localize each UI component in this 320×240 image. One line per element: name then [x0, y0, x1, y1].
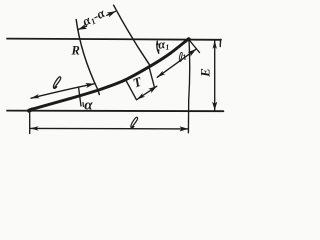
- bent bar (workpiece): [30, 39, 189, 110]
- tiny stroke before alpha: [82, 103, 84, 107]
- label E: [197, 68, 212, 78]
- svg-text:α: α: [84, 97, 93, 113]
- T dimension left tick: [126, 80, 137, 100]
- bottom reference line: [7, 110, 223, 113]
- top line end tick: [219, 39, 221, 46]
- alpha1 arrow bottom head: [157, 49, 160, 54]
- bottom dimension l line: [30, 127, 188, 130]
- svg-text:T: T: [131, 73, 145, 90]
- extension line at bar left end: [29, 111, 31, 134]
- dimension line l1: [157, 49, 196, 77]
- radius line 2: [114, 5, 151, 66]
- apex perpendicular extension: [189, 39, 200, 52]
- T dimension right tick: [149, 68, 154, 88]
- bar left end blob: [29, 109, 32, 110]
- label l1 script glyph: [177, 52, 185, 62]
- alpha1-alpha right arrow: [107, 11, 116, 15]
- svg-text:E: E: [197, 68, 212, 78]
- svg-text:R: R: [71, 44, 80, 58]
- tick near alpha: [79, 88, 81, 106]
- alpha1 arrow top head: [156, 41, 159, 46]
- svg-text:α1-α: α1-α: [80, 5, 108, 30]
- svg-text:1: 1: [181, 52, 188, 62]
- apex junction blob: [187, 37, 191, 41]
- top reference line: [7, 39, 221, 40]
- T dimension line with arrows: [137, 86, 157, 99]
- label bottom l script glyph: [131, 117, 138, 128]
- dimension E line: [214, 41, 216, 111]
- radius line R: [76, 20, 99, 95]
- alpha1-alpha left arrow: [78, 26, 86, 29]
- upper dimension l line: [31, 84, 94, 98]
- label upper l script glyph: [53, 77, 60, 88]
- vertical extension line from apex: [188, 40, 189, 133]
- angle alpha1 double arrow: [157, 41, 159, 53]
